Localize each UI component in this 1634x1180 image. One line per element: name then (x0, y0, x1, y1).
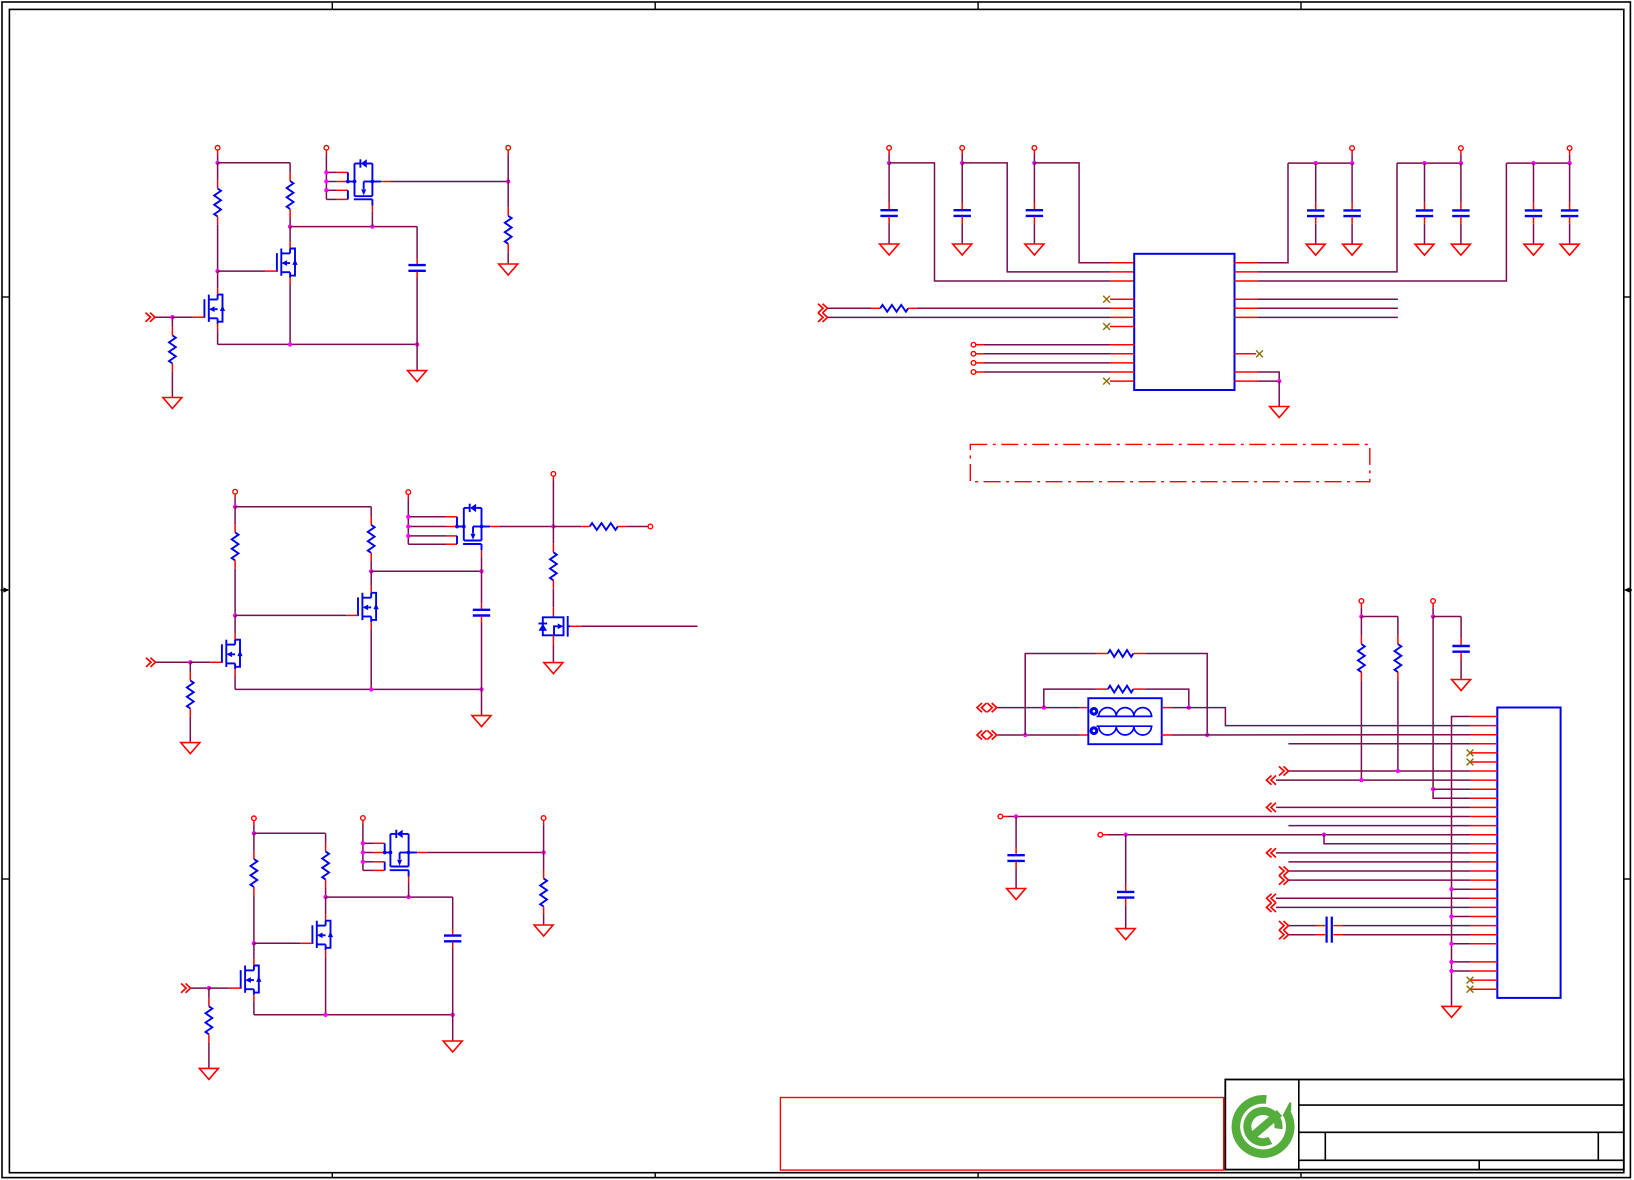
wire net stub row (1288, 743, 1470, 745)
capacitor C64 series pair (1289, 917, 1470, 943)
wire Q24 source to ground (552, 635, 554, 662)
wire to ground (452, 1015, 454, 1041)
junction (252, 941, 256, 945)
wire gate Q2 (218, 270, 277, 272)
transistor Q22 NMOS (358, 571, 379, 689)
wire branch row k14 (1324, 835, 1470, 844)
port arrow in (1267, 848, 1277, 857)
transistor Q24 discharge NMOS (539, 616, 571, 637)
no-connect pin (1467, 759, 1474, 766)
junction (1431, 614, 1435, 618)
junction (170, 315, 174, 319)
transistor Q11 NMOS (204, 271, 225, 344)
pin P44 config (971, 370, 1134, 375)
transistor Q31 NMOS (241, 943, 262, 1015)
resistor R62 bypass loop lower winding (1025, 650, 1207, 735)
connector J1 (1497, 708, 1560, 998)
pin P43 config (971, 361, 1134, 366)
resistor R41 series input (828, 305, 1134, 312)
junction (215, 269, 219, 273)
ground (544, 663, 563, 674)
wire input (156, 316, 173, 318)
wire mid row (290, 226, 417, 228)
wire top rail (254, 832, 326, 834)
ground (1116, 929, 1135, 940)
wire output row block1 (391, 181, 509, 183)
port arrow out (1279, 876, 1289, 885)
junction (406, 895, 410, 899)
junction (1449, 887, 1453, 891)
resistor R22 (368, 507, 375, 572)
dashed annotation box (970, 444, 1370, 481)
wire net stub row (1288, 861, 1470, 863)
wire IC to cap group A (1235, 163, 1289, 263)
wire cap bus to IC pin 2 (962, 163, 1134, 272)
wire IC gnd pin upper (1235, 372, 1280, 381)
wire to ground (1278, 381, 1280, 406)
resistor R33 (206, 988, 213, 1068)
pin P31 supply input block3 (252, 816, 257, 833)
pin P22 gate drive (406, 490, 411, 495)
junction (207, 986, 211, 990)
wire bottom rail (235, 688, 481, 690)
port arrow net input A (818, 304, 828, 313)
common-mode choke FB1 (1088, 698, 1161, 744)
wire input (156, 661, 190, 663)
port arrow input block3 (181, 984, 191, 993)
wire cap bus to IC pin 3 (889, 163, 1134, 281)
junction (506, 179, 510, 183)
ground (1270, 407, 1289, 418)
wire IC to cap group B (1235, 163, 1398, 272)
junction (252, 831, 256, 835)
wire pin to Rb (1361, 616, 1398, 618)
pin P63 with net to J1 (998, 814, 1470, 819)
wire bottom rail (218, 343, 418, 345)
capacitor C41 bypass with pin (880, 146, 899, 255)
junction (288, 224, 292, 228)
no-connect pin (1467, 986, 1474, 993)
ground (163, 398, 182, 409)
wire top rail (235, 506, 371, 508)
ground (181, 743, 200, 754)
wire IC net stub (1235, 307, 1398, 309)
junction (1205, 733, 1209, 737)
wire choke out2 to J1 (1162, 734, 1471, 736)
capacitor C51 bypass (1306, 161, 1325, 255)
resistor R34 output pulldown (540, 853, 547, 926)
pin P41 config (971, 342, 1134, 347)
wire choke out1 to J1 (1162, 708, 1471, 726)
wire input B to IC (828, 316, 1134, 318)
wire to choke in2 (998, 734, 1089, 736)
port arrow in (1267, 803, 1277, 812)
ground (499, 264, 518, 275)
pin P32 gate drive (361, 816, 366, 821)
junction (1449, 942, 1453, 946)
port arrow line L2 (977, 730, 997, 739)
junction (1014, 814, 1018, 818)
junction (1124, 833, 1128, 837)
pin P13 output block1 (506, 146, 511, 182)
wire PMOS source down (481, 556, 483, 571)
pin P61 (1359, 599, 1364, 617)
resistor R31 (251, 833, 258, 943)
transistor Q23 PMOS pack (406, 494, 500, 556)
capacitor C21 (473, 571, 490, 689)
no-connect pin (1103, 378, 1134, 385)
junction (1449, 960, 1453, 964)
pin P24 sense output (648, 524, 653, 529)
junction (188, 660, 192, 664)
resistor R63 pullup A (1358, 617, 1365, 781)
capacitor C54 bypass with pin (1451, 146, 1470, 255)
junction (1042, 705, 1046, 709)
junction (479, 569, 483, 573)
ground (1007, 889, 1026, 900)
junction (1277, 379, 1281, 383)
resistor R25 to discharge FET (550, 527, 557, 618)
wire PMOS source down (371, 212, 373, 227)
pin P12 gate drive (324, 146, 329, 151)
resistor R21 (232, 507, 239, 616)
wire top rail (218, 162, 291, 164)
wire bottom rail (254, 1014, 453, 1016)
wire input (191, 987, 209, 989)
wire to ground (481, 689, 483, 715)
resistor R23 (187, 662, 194, 742)
capacitor C61 (1452, 617, 1469, 680)
port arrow in (1267, 894, 1277, 903)
port arrow net input B (818, 313, 828, 322)
wire port row (1276, 806, 1470, 808)
port arrow input block2 (146, 658, 156, 667)
wire gnd stub (1452, 888, 1471, 890)
wire cap group bus (1506, 162, 1569, 164)
ground (534, 925, 553, 936)
wire gate Q1 (209, 987, 241, 989)
wire gate Q1 (190, 661, 222, 663)
junction (1449, 969, 1453, 973)
wire IC to cap group C (1235, 163, 1507, 281)
junction (215, 161, 219, 165)
no-connect pin (1467, 977, 1474, 984)
wire gnd stub (1452, 970, 1471, 972)
wire to choke in1 (998, 707, 1089, 709)
junction (551, 524, 555, 528)
capacitor C11 (408, 227, 425, 345)
wire IC net stub (1235, 316, 1398, 318)
junction (323, 895, 327, 899)
wire port row (1289, 870, 1470, 872)
wire IC net stub (1235, 298, 1398, 300)
pin P21 supply input block2 (233, 489, 238, 506)
logo green emblem (1236, 1099, 1291, 1153)
pin P23 output block2 (551, 472, 556, 527)
junction (288, 342, 419, 346)
wire ground bus (1452, 717, 1471, 1007)
wire port row (1289, 770, 1470, 772)
capacitor C53 bypass (1415, 161, 1434, 255)
ground (408, 371, 427, 382)
wire port row (1289, 879, 1470, 881)
port arrow pair (1279, 921, 1289, 939)
port arrow line L1 (977, 703, 997, 712)
wire row k8 (1433, 788, 1470, 790)
wire PMOS source down (408, 883, 410, 898)
port arrow in (1267, 903, 1277, 912)
wire gate Q2 (235, 614, 358, 616)
pin P33 output block3 (541, 816, 546, 853)
ground (443, 1041, 462, 1052)
transistor Q21 NMOS (222, 615, 243, 689)
wire cap group bus (1288, 162, 1352, 164)
junction (369, 687, 484, 691)
wire gnd stub (1452, 943, 1471, 945)
no-connect pin (1235, 350, 1263, 357)
junction (370, 224, 374, 228)
pin P62 (1431, 599, 1436, 617)
pin P11 supply input block1 (215, 146, 220, 163)
resistor R13 (169, 317, 176, 397)
wire to ground (416, 344, 418, 370)
transistor Q13 PMOS pack (324, 150, 390, 212)
pin P64 with net to J1 (1098, 832, 1470, 837)
resistor R11 (214, 163, 221, 271)
junction (233, 505, 237, 509)
capacitor C52 bypass with pin (1343, 146, 1362, 255)
resistor R64 pullup B (1395, 617, 1402, 772)
wire mid row (371, 570, 481, 572)
wire gnd stub (1452, 916, 1471, 918)
wire cap group bus (1397, 162, 1461, 164)
no-connect pin (1103, 296, 1134, 303)
resistor R32 (322, 833, 329, 897)
title block (1225, 1080, 1624, 1170)
junction (1396, 769, 1400, 773)
pin P42 config (971, 352, 1134, 357)
capacitor C43 bypass with pin (1025, 146, 1044, 255)
resistor R12 (287, 163, 294, 227)
ground (199, 1068, 218, 1079)
wire cap bus to IC pin 1 (1034, 163, 1134, 263)
transistor Q12 NMOS (277, 227, 298, 345)
junction (233, 613, 237, 617)
resistor R14 output pulldown (505, 182, 512, 265)
wire IC gnd pin lower (1235, 380, 1280, 382)
wire Q24 gate net (570, 625, 697, 627)
capacitor C55 bypass (1524, 161, 1543, 255)
resistor R24 series output (553, 523, 648, 530)
junction (1322, 833, 1326, 837)
wire mid row (326, 896, 453, 898)
capacitor C63 (1117, 835, 1134, 929)
junction (1187, 705, 1191, 709)
port arrow in (1267, 776, 1277, 785)
wire port row (1276, 897, 1470, 899)
wire port row (1276, 906, 1470, 908)
transistor Q33 PMOS pack (361, 820, 427, 882)
wire gate Q1 (172, 316, 204, 318)
wire output row block3 (427, 852, 544, 854)
transistor Q32 NMOS (312, 897, 333, 1015)
port arrow out (1279, 866, 1289, 875)
IC U1 (1134, 254, 1234, 390)
ground (1452, 680, 1471, 691)
junction (1431, 787, 1435, 791)
capacitor C42 bypass with pin (953, 146, 972, 255)
ground (472, 716, 491, 727)
red revision box (780, 1098, 1223, 1171)
ground (1442, 1006, 1461, 1017)
junction (1023, 733, 1027, 737)
wire gnd stub (1452, 961, 1471, 963)
junction (1359, 614, 1363, 618)
wire port row (1276, 852, 1470, 854)
capacitor C56 bypass with pin (1560, 146, 1579, 255)
wire port row (1276, 779, 1470, 781)
wire pin to cap (1433, 616, 1461, 618)
port arrow input block1 (146, 313, 156, 322)
wire output row block2 (500, 526, 554, 528)
connector J1 pin stubs (1470, 717, 1497, 990)
junction (1449, 914, 1453, 918)
capacitor C31 (444, 897, 461, 1015)
junction (369, 569, 373, 573)
wire net stub row (1288, 825, 1470, 827)
resistor R61 bypass loop upper winding (1044, 686, 1189, 708)
no-connect pin (1103, 323, 1134, 330)
junction (541, 850, 545, 854)
capacitor C62 (1007, 817, 1024, 889)
wire P62 net to J1 rows (1433, 617, 1470, 799)
no-connect pin (1467, 750, 1474, 757)
port arrow out (1279, 766, 1289, 775)
junction (323, 1013, 455, 1017)
junction (1359, 778, 1363, 782)
wire gate Q2 (254, 942, 313, 944)
